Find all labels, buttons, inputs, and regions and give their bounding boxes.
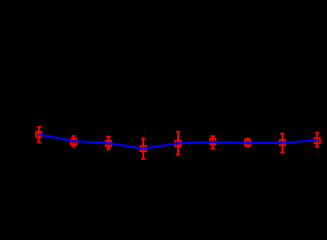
error bar point 9: [315, 133, 319, 147]
error bar point 5: [176, 132, 180, 155]
marker square 8: [280, 140, 286, 146]
error bar point 4: [141, 139, 145, 159]
marker square 5: [175, 141, 181, 147]
error bar point 3: [106, 137, 110, 150]
marker square 2: [71, 139, 77, 145]
error bar point 7: [245, 139, 249, 147]
marker square 4: [140, 146, 146, 152]
error bar point 2: [71, 136, 75, 147]
error bar point 1: [37, 127, 41, 142]
marker square 7: [245, 140, 251, 146]
marker square 3: [106, 141, 112, 147]
marker square 1: [36, 132, 42, 138]
data series line (blue): [39, 135, 317, 149]
marker square 6: [210, 139, 216, 145]
error bar point 6: [211, 136, 215, 149]
marker square 9: [314, 138, 320, 144]
error bar point 8: [280, 134, 284, 153]
